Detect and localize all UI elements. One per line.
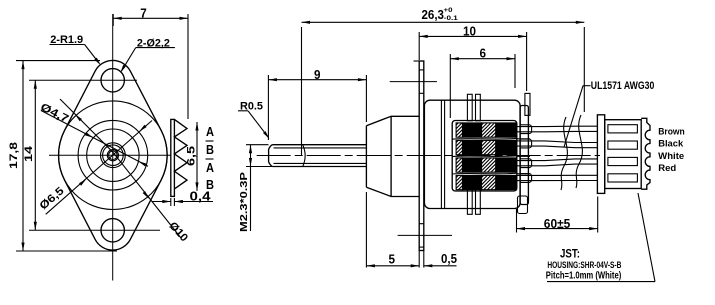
dim 7 extension lines xyxy=(112,14,114,26)
leader line D6.5 xyxy=(46,121,152,215)
lead wires xyxy=(517,126,598,132)
cable break wave 2 xyxy=(576,115,582,188)
dim 60+-5 xyxy=(517,228,598,230)
connector body xyxy=(605,120,642,189)
rear cap xyxy=(520,106,528,205)
shaft center circles xyxy=(107,150,118,161)
dim 17.8 xyxy=(22,61,24,251)
cone front face xyxy=(365,126,367,188)
svg-text:B: B xyxy=(206,143,214,157)
shaft thread circles xyxy=(101,143,126,168)
top hole centerline xyxy=(29,79,137,81)
wire crimp bumps xyxy=(520,125,532,134)
svg-text:9: 9 xyxy=(314,68,321,82)
side centerline xyxy=(257,155,600,157)
JST leader xyxy=(638,193,655,282)
leader line D10 xyxy=(60,99,113,152)
thread runout arc xyxy=(303,145,305,166)
dim M2.3 line xyxy=(250,145,252,231)
motor body outline xyxy=(424,100,520,208)
dim 6 extension lines xyxy=(449,54,451,118)
svg-text:M2.3*0.3P: M2.3*0.3P xyxy=(238,172,250,232)
dim 10 extension lines xyxy=(418,32,420,60)
coil weave lines xyxy=(452,137,516,140)
svg-text:60±5: 60±5 xyxy=(544,217,571,231)
coil stack outline xyxy=(452,121,517,192)
svg-text:HOUSING:SHR-04V-S-B: HOUSING:SHR-04V-S-B xyxy=(547,260,621,270)
bottom pole tab 1 xyxy=(467,188,472,215)
dim 7 xyxy=(113,17,188,19)
front top mounting hole xyxy=(101,69,124,92)
connector flange plate xyxy=(597,115,604,194)
svg-text:Pitch=1.0mm (White): Pitch=1.0mm (White) xyxy=(546,271,622,282)
svg-text:5: 5 xyxy=(389,253,396,267)
body internal lamination lines xyxy=(440,100,442,208)
top pole tab 2 xyxy=(476,94,481,121)
dim 9 extension lines xyxy=(267,75,269,140)
svg-text:Red: Red xyxy=(658,163,676,174)
svg-text:10: 10 xyxy=(463,24,476,38)
row separator stubs xyxy=(517,139,531,174)
svg-text:A: A xyxy=(206,161,214,175)
circle D4.7 xyxy=(87,129,139,181)
front bottom mounting hole xyxy=(101,219,124,242)
coil stack cells xyxy=(456,123,462,137)
plate bottom hole centerline xyxy=(398,234,452,236)
shaft thread minor lines xyxy=(274,147,367,149)
dim 9 xyxy=(268,79,366,81)
dim 14 xyxy=(34,80,36,230)
svg-text:17,8: 17,8 xyxy=(8,142,20,169)
connector crimp-side profile xyxy=(641,118,650,189)
vertical centerline xyxy=(112,14,114,281)
bottom pole tab 2 xyxy=(476,188,481,215)
svg-text:14: 14 xyxy=(23,145,35,162)
dim 0.4 strip extensions xyxy=(170,198,172,206)
dim 26.3 extension left xyxy=(301,27,303,155)
terminal teeth xyxy=(174,119,187,188)
motor body circle D10 xyxy=(59,101,168,210)
svg-text:UL1571 AWG30: UL1571 AWG30 xyxy=(591,80,655,92)
svg-text:6: 6 xyxy=(480,46,487,60)
cone outline xyxy=(366,116,419,196)
svg-text:+0: +0 xyxy=(444,7,453,14)
rear bottom lug xyxy=(518,196,528,214)
connector wire slots xyxy=(608,125,638,133)
flange plate top tick xyxy=(414,60,420,62)
leader line D4.7 xyxy=(41,111,148,167)
shaft dia extension lines xyxy=(246,144,269,146)
dim 6 xyxy=(450,58,515,60)
svg-text:-0.1: -0.1 xyxy=(444,15,458,22)
front view bracket outline xyxy=(59,60,168,250)
svg-text:26,3: 26,3 xyxy=(422,8,445,22)
plate hole edge ticks xyxy=(419,69,424,71)
svg-text:6,5: 6,5 xyxy=(186,146,198,166)
cable break wave 1 xyxy=(561,117,567,190)
dim 17.8 extension lines xyxy=(16,60,100,62)
top pole tab 1 xyxy=(467,94,472,121)
horizontal centerline xyxy=(49,154,171,156)
dim 5 extension lines xyxy=(365,192,367,268)
dim 5 and 0.5 xyxy=(366,265,419,267)
circle D6.5 xyxy=(78,120,148,190)
plate top hole centerline xyxy=(390,81,437,83)
svg-text:Brown: Brown xyxy=(658,127,685,138)
dim 10 xyxy=(419,35,526,37)
svg-text:0,4: 0,4 xyxy=(190,190,211,204)
bottom hole centerline xyxy=(29,229,160,231)
svg-text:A: A xyxy=(206,125,214,139)
shaft outline xyxy=(269,145,367,167)
dim 60 extension lines xyxy=(516,209,518,233)
svg-text:0,5: 0,5 xyxy=(441,252,457,266)
svg-text:Black: Black xyxy=(658,139,684,150)
dim 26.3 extension right xyxy=(583,27,585,112)
svg-text:Ø10: Ø10 xyxy=(166,220,190,244)
flange plate side xyxy=(419,61,424,251)
terminal strip xyxy=(171,119,175,196)
dim 26.3 xyxy=(302,21,585,23)
dim 0.4 xyxy=(152,201,171,203)
rear top lug xyxy=(525,93,530,115)
dim 6.5 xyxy=(196,122,198,191)
svg-text:White: White xyxy=(658,151,684,162)
svg-text:7: 7 xyxy=(140,6,147,20)
svg-text:JST:: JST: xyxy=(560,247,580,261)
